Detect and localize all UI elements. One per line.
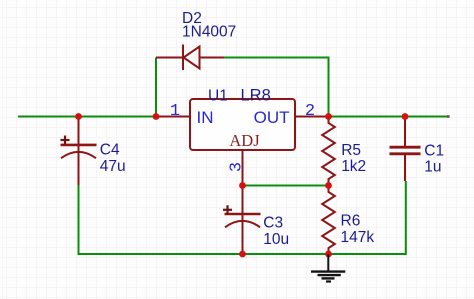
svg-text:C1: C1 (424, 142, 444, 159)
wire ADJ node to resistor divider (243, 185, 329, 187)
U1 pin 1 IN (156, 116, 190, 118)
svg-text:LR8: LR8 (241, 87, 271, 105)
svg-text:ADJ: ADJ (229, 131, 260, 150)
C3 plus polarity mark (223, 205, 232, 214)
svg-text:C3: C3 (263, 215, 283, 232)
svg-text:1: 1 (170, 102, 180, 121)
junction node R6 / ground rail (325, 251, 332, 258)
wire output net right (329, 116, 449, 118)
capacitor C3 (225, 186, 261, 255)
svg-text:147k: 147k (341, 229, 375, 246)
junction node C3 / ground rail (239, 251, 246, 258)
op-amp regulator U1 body (190, 99, 295, 150)
U1 pin 3 ADJ (242, 150, 244, 186)
svg-text:2: 2 (305, 102, 315, 121)
svg-text:10u: 10u (263, 231, 289, 248)
svg-text:U1: U1 (208, 88, 228, 105)
svg-text:OUT: OUT (254, 108, 290, 127)
diode D2 (156, 45, 224, 71)
svg-text:1N4007: 1N4007 (182, 24, 236, 41)
wire open end marker (447, 115, 450, 118)
C4 plus polarity mark (61, 136, 70, 145)
U1 pin 2 OUT (295, 116, 329, 118)
junction node ADJ / C3 (239, 182, 246, 189)
svg-text:IN: IN (197, 108, 214, 127)
svg-text:3: 3 (228, 162, 247, 172)
capacitor C1 (390, 117, 421, 182)
junction node R5 / R6 (325, 182, 332, 189)
svg-text:1k2: 1k2 (341, 158, 366, 175)
wire input net left (18, 116, 156, 118)
resistor R6 (322, 186, 335, 255)
junction node input / diode branch (153, 113, 160, 120)
svg-text:C4: C4 (100, 142, 120, 159)
junction node input / C4 (75, 113, 82, 120)
pin number 3 (228, 162, 247, 172)
svg-text:47u: 47u (100, 158, 126, 175)
svg-text:R5: R5 (341, 142, 361, 159)
resistor R5 (322, 118, 335, 186)
capacitor C4 (61, 117, 97, 186)
wire bottom ground rail (79, 181, 406, 254)
svg-text:1u: 1u (424, 159, 441, 176)
ground (311, 255, 345, 282)
junction node output / R5 (325, 113, 332, 120)
svg-text:R6: R6 (341, 213, 361, 230)
wire from input up to diode cathode (155, 58, 157, 117)
junction node output / C1 (402, 113, 409, 120)
wire from diode anode to output node (224, 58, 329, 117)
